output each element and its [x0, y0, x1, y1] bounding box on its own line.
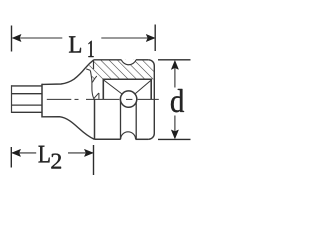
socket bottom edge right of notch [136, 138, 149, 140]
dimension d top tick [158, 59, 191, 61]
socket right edge with rounded corners [148, 60, 154, 140]
hex hole wedge line [94, 93, 99, 99]
label L1 subscript 1 [88, 41, 93, 57]
label d [171, 89, 184, 112]
square hole right wall [150, 79, 152, 99]
dimension d down arrow [171, 130, 178, 139]
dimension L1 line right segment [101, 37, 155, 39]
hex bit tip edge [11, 85, 13, 113]
square hole left diagonal [103, 80, 122, 95]
dimension L2 line right segment [68, 152, 93, 154]
socket bottom edge left of notch [95, 138, 121, 140]
square hole top edge [103, 78, 153, 80]
collar top edge and flare top curve [42, 60, 94, 84]
dimension L2 line left segment [12, 152, 36, 154]
dimension L2 left arrow [12, 149, 21, 156]
socket top edge right of notch [136, 59, 148, 61]
dimension L1 left arrow [12, 34, 21, 41]
dimension L2 right arrow [84, 149, 93, 156]
label L2 subscript 2 [51, 154, 61, 169]
square hole right diagonal [135, 80, 152, 94]
label L2 letter L [39, 146, 50, 163]
pin channel right wall [135, 100, 137, 139]
bit shoulder [41, 84, 43, 118]
dimension L1 right arrow [146, 34, 155, 41]
o-ring groove top notch [121, 60, 136, 65]
ball center dash [126, 98, 132, 100]
socket top edge left of notch [94, 59, 122, 61]
dimension d bottom tick [158, 138, 191, 140]
square hole left wall [102, 79, 104, 99]
dimension L1 line left segment [12, 37, 62, 39]
centerline dash c [138, 98, 159, 100]
socket front corner stub [93, 60, 95, 69]
bit end edge in section [90, 71, 94, 99]
dimension L1 left tick [11, 26, 13, 52]
dimension d line lower segment [174, 116, 176, 138]
hex bit flat line lower [12, 104, 43, 106]
retaining ball [120, 91, 136, 107]
o-ring groove bottom notch [121, 132, 136, 140]
section hatching [88, 49, 158, 83]
dimension L2 left tick [10, 147, 12, 168]
centerline dash b [86, 98, 119, 100]
centerline dash a [47, 98, 72, 100]
o-ring groove notch cutout [121, 49, 137, 65]
centerline dot [75, 98, 79, 100]
pin channel left wall [120, 100, 122, 139]
hex hole cone edge [92, 76, 96, 82]
dimension L2 right tick [93, 145, 95, 175]
dimension d line upper segment [174, 62, 176, 88]
label L1 letter L [69, 36, 81, 52]
socket front face lower [94, 100, 96, 140]
hex hole wedge vertical [98, 93, 100, 99]
hex bit flat line upper [12, 93, 43, 95]
hex bit top edge [12, 85, 43, 87]
collar bottom edge and flare bottom curve [42, 117, 94, 140]
dimension L1 right tick [154, 25, 156, 52]
hex bit bottom edge [12, 111, 43, 113]
bit end connector [86, 69, 90, 71]
dimension d up arrow [171, 61, 178, 70]
